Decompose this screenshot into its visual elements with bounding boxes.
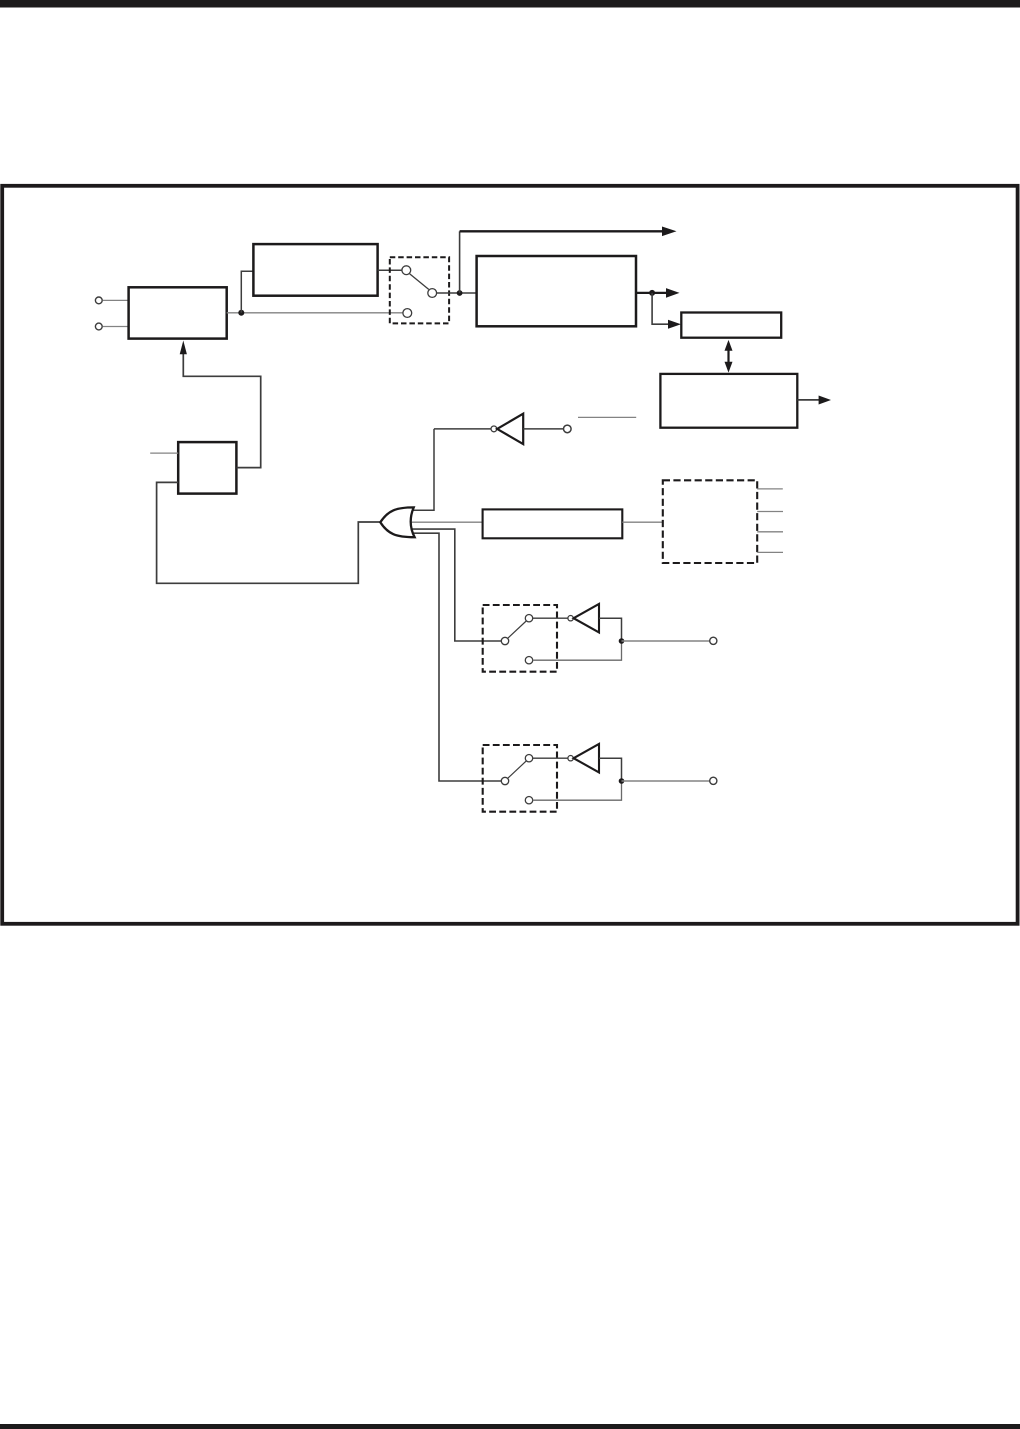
wire: J3 up (459, 231, 461, 293)
wire: S3 lower bypass (533, 781, 622, 800)
inverter U4 bubble (568, 616, 573, 621)
bidirectional arrow: register to memory (727, 350, 729, 363)
wire: top output arrow line (460, 230, 663, 232)
config block (dashed) (663, 480, 757, 563)
wire: J5 to output terminal 1 (622, 640, 710, 642)
input terminal pin 1 (95, 297, 102, 304)
wire: OE pin net vertical (412, 429, 434, 510)
arrowhead: into register block (668, 320, 681, 329)
wire: OR gate output loop to control logic (157, 482, 380, 583)
node J6 (619, 778, 625, 784)
wire: S1 common to block B (437, 292, 477, 294)
switch S1 enclosure (dashed) (390, 257, 449, 323)
wire: S2 lower bypass (533, 641, 622, 660)
wire: config stub 1 (757, 488, 783, 490)
wire: control logic output loop to block A (arrow up) (183, 354, 260, 468)
wire: S2 upper to inverter U4 (533, 617, 568, 619)
wire: memory output arrow (797, 399, 819, 401)
inverter U2 (497, 414, 523, 444)
inverter U2 bubble (491, 426, 497, 432)
wire: OR input 4 to switch S3 (414, 533, 502, 781)
wire: U5 output down to node J6 (599, 758, 622, 781)
footer bar (0, 1424, 1020, 1429)
overbar of missing label (578, 416, 636, 418)
input terminal pin 2 (95, 323, 102, 330)
block: divider (483, 509, 623, 538)
arrowhead: block B output (666, 288, 680, 298)
terminal: output pin 1 (710, 637, 717, 644)
block: register (681, 313, 781, 338)
block: control logic U3 (178, 442, 236, 494)
switch S1 upper contact (402, 266, 411, 275)
terminal: OE pin (564, 425, 572, 433)
block A (multiplier) (253, 244, 377, 296)
wire: S3 upper to inverter U5 (533, 757, 568, 759)
wire: J2 up to block A input (241, 271, 253, 313)
inverter U5 bubble (568, 756, 573, 761)
arrowhead: into input stage bottom (180, 341, 187, 355)
wire: divider to config block (622, 521, 663, 523)
node J5 (619, 638, 625, 644)
switch S2 upper contact (525, 615, 532, 622)
switch S3 lower contact (525, 797, 532, 804)
node J4 (649, 290, 655, 296)
switch S1 lever (410, 274, 429, 290)
switch S2 common contact (501, 637, 508, 644)
block B (PLL) (477, 256, 636, 326)
block: memory (660, 374, 797, 428)
header bar (0, 0, 1020, 8)
switch S2 lower contact (525, 657, 532, 664)
inverter U5 (574, 744, 599, 773)
switch S3 enclosure (dashed) (483, 745, 557, 812)
terminal: output pin 2 (710, 777, 717, 784)
arrowhead: memory output (819, 396, 831, 405)
wire: inverter U2 input (434, 428, 491, 430)
wire: OR input mid (from divider box) (411, 521, 483, 523)
wire: input stubs to input stage (103, 300, 129, 326)
wire: J6 to output terminal 2 (622, 780, 710, 782)
wire: control logic stub input (150, 452, 178, 454)
switch S3 upper contact (525, 755, 532, 762)
switch S3 common contact (501, 777, 508, 784)
wire: config stub 4 (757, 551, 783, 553)
OR gate G1 (pointing left) (380, 507, 414, 537)
switch S2 enclosure (dashed) (483, 605, 557, 672)
node J3 (457, 290, 463, 296)
wire: config stub 2 (757, 511, 783, 513)
switch S1 lower contact (403, 309, 412, 318)
switch S2 lever (508, 621, 527, 638)
wire: inverter U2 to OE terminal (523, 428, 563, 430)
switch S1 common contact (428, 289, 437, 298)
wire: J4 down to register block (652, 293, 668, 324)
wire: OR input 3 to switch S2 (413, 529, 502, 641)
inverter U4 (574, 604, 599, 633)
block: input stage U1 (129, 287, 227, 338)
wire: input stage output bus (to switch S1 lower contact) (227, 312, 403, 314)
diagram frame (2, 186, 1017, 924)
node J2 (238, 310, 244, 316)
wire: config stub 3 (757, 531, 783, 533)
wire: U4 output down to node J5 (599, 618, 622, 641)
wire: block A output to switch S1 upper contact (378, 269, 402, 271)
wire: block B output (636, 292, 666, 294)
switch S3 lever (508, 761, 527, 778)
arrowhead: top output (662, 227, 677, 237)
